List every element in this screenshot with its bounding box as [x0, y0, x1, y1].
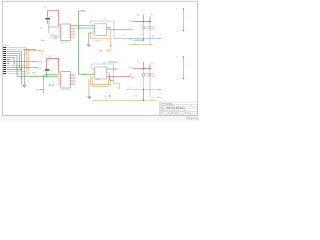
svg-text:IMU Tiny Breakout: IMU Tiny Breakout	[167, 107, 185, 110]
svg-text:SCL: SCL	[129, 38, 132, 40]
svg-text:R1: R1	[146, 27, 148, 29]
svg-text:R?: R?	[140, 85, 142, 87]
svg-text:SCL: SCL	[50, 37, 53, 39]
svg-text:1k: 1k	[117, 88, 119, 90]
svg-text:BNO055: BNO055	[61, 90, 71, 92]
svg-text:TXB0104: TXB0104	[95, 40, 101, 42]
svg-text:BNO055: BNO055	[61, 42, 71, 44]
svg-text:10k: 10k	[146, 29, 149, 31]
svg-text:10k: 10k	[146, 76, 149, 78]
svg-text:1x: 1x	[130, 67, 132, 69]
svg-text:SCL: SCL	[131, 29, 134, 31]
svg-text:4mm: 4mm	[157, 97, 161, 99]
svg-text:sda: sda	[152, 36, 155, 38]
svg-text:R4: R4	[152, 74, 154, 76]
svg-text:10k: 10k	[152, 76, 155, 78]
svg-text:R?: R?	[141, 35, 143, 37]
svg-text:1x: 1x	[130, 20, 132, 22]
svg-text:1k: 1k	[151, 96, 153, 98]
svg-text:4.7k: 4.7k	[134, 96, 137, 98]
svg-text:R2: R2	[152, 27, 154, 29]
svg-text:2k2: 2k2	[40, 27, 43, 29]
svg-text:sda: sda	[151, 98, 154, 100]
svg-text:10u: 10u	[50, 16, 53, 18]
svg-text:3V3: 3V3	[82, 11, 85, 13]
svg-text:J3: J3	[176, 57, 178, 59]
svg-text:SCL: SCL	[38, 67, 41, 69]
svg-text:1k: 1k	[123, 35, 125, 37]
svg-text:g: g	[105, 97, 106, 99]
svg-text:fritzing: fritzing	[186, 116, 199, 121]
svg-text:J2: J2	[176, 9, 178, 11]
svg-text:10k: 10k	[152, 29, 155, 31]
svg-text:R3: R3	[146, 74, 148, 76]
svg-text:SCL: SCL	[49, 56, 52, 58]
svg-text:shd: shd	[110, 45, 113, 47]
svg-text:1u: 1u	[50, 70, 52, 72]
